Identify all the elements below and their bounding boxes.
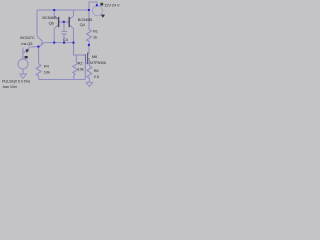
svg-text:Q6: Q6 [49,20,55,25]
voltage source V2 [93,6,103,16]
wire gate branch [76,54,85,56]
transistor Q6 [54,10,64,29]
wire bottom rail [39,79,86,81]
mosfet M6 [85,54,89,63]
svg-text:BC546B: BC546B [42,15,57,20]
node dot bus Q6 [53,42,55,44]
node dot V2 top [96,4,98,6]
wire R5 bottom lead [74,74,76,80]
wire emitter bus horizontal [44,42,74,44]
node dot base junction [63,21,65,23]
svg-text:BC547C: BC547C [20,35,35,40]
svg-text:0.5: 0.5 [94,74,100,79]
background [0,0,120,88]
node dot bus Q4 [73,42,75,44]
wire V2 top stub [89,2,97,10]
mosfet M6 channel bar [87,53,89,65]
wire drain lower lead [88,41,90,54]
svg-text:PULSE(0 5 0 5m): PULSE(0 5 0 5m) [2,80,31,84]
wire Q4 emitter vertical [73,29,75,43]
mosfet M6 gate bar [85,54,87,63]
wire R6 bottom lead [88,78,90,82]
label V1 ref [25,56,28,58]
transistor Q4 [64,10,74,29]
ground for R6 [86,82,93,86]
svg-text:1k: 1k [93,35,97,40]
capacitor C4 [62,30,68,32]
svg-text:.tran 10m: .tran 10m [2,85,17,88]
wire Q4 emitter to R5 jog [74,43,77,62]
wire capacitor C4 bottom lead [63,35,65,43]
node dot Q5 [37,46,39,48]
svg-text:MTP3N06: MTP3N06 [90,61,106,65]
node dot rail-Q6 [53,9,55,11]
wire diagonal snake to node A [37,36,42,47]
svg-text:12V 24 V: 12V 24 V [104,3,120,8]
label V2 glyph [100,3,103,6]
transistor Q5 emitter arrow [26,49,29,53]
wire R6 top lead [88,63,90,66]
svg-text:ms Q5: ms Q5 [21,41,33,46]
ground for V1 [20,74,27,78]
svg-text:M6: M6 [92,54,98,59]
svg-text:Q4: Q4 [80,22,86,27]
resistor R1 [87,30,92,42]
wire left drop from rail [36,10,38,36]
wire Q5 emitter diagonal [24,47,31,53]
svg-text:10k: 10k [78,67,84,72]
node dot bus C4 [63,42,65,44]
wire source column to bottom rail [84,63,86,79]
node dot rail-V2 [88,9,90,11]
svg-text:10k: 10k [44,69,50,74]
wire capacitor C4 top lead [63,23,65,31]
node dot drain mid [88,44,90,46]
wire Q5 base stub [31,46,38,49]
voltage source V1 [18,59,28,69]
resistor R4 [36,64,41,76]
ground for V2 [101,15,105,18]
resistor R6 [87,66,92,78]
wire Q6 emitter vertical [53,29,55,43]
wire drain upper lead [88,10,90,30]
wire V1 bottom lead [22,69,24,74]
resistor R5 [73,62,78,74]
wire R4 bottom lead [38,76,40,80]
wire top rail [37,9,89,11]
wire diagonal node A to emitter bus [39,43,44,47]
wire R4 top lead [38,47,40,64]
wire V1 top stub [22,48,24,60]
